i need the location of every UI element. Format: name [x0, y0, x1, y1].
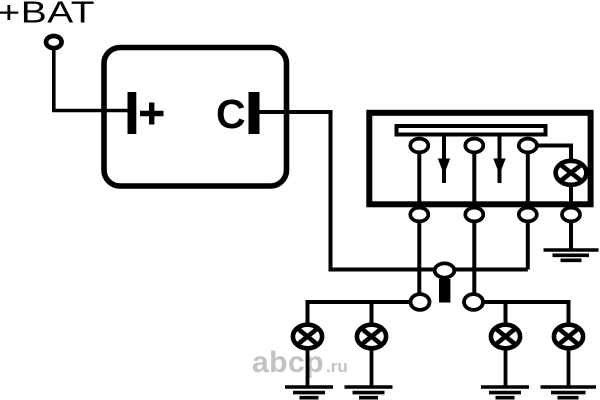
- switch box: [369, 113, 590, 205]
- wire lamp 4 to ground: [567, 348, 571, 386]
- wire to right lamps: [483, 302, 569, 326]
- ground lamp 4: [541, 387, 597, 398]
- junction bar: [439, 279, 450, 303]
- svg-text:C: C: [216, 91, 246, 137]
- watermark abcp.ru: [252, 346, 348, 379]
- wire pilot lamp to terminal 4: [569, 185, 573, 215]
- terminal circle 4: [562, 208, 580, 222]
- wire C plate to junction: [260, 112, 435, 270]
- lamp 2: [357, 325, 386, 349]
- wire branch lamp 2: [370, 302, 374, 326]
- junction node: [435, 263, 455, 277]
- svg-text:abcp: abcp: [252, 346, 324, 379]
- wire lamp 2 to ground: [370, 348, 374, 386]
- arrow 2: [493, 137, 505, 184]
- plus sign: [140, 103, 164, 125]
- wire contact 3 to pilot lamp: [538, 146, 572, 162]
- ground lamp 2: [345, 387, 393, 398]
- capacitor plate C: [249, 92, 260, 134]
- terminal circle 2: [465, 208, 483, 222]
- arrow 1: [438, 137, 450, 184]
- wire contact 2 vertical: [472, 146, 476, 216]
- ground lamp 3: [481, 387, 529, 398]
- switch contact bar: [397, 126, 546, 135]
- lamp 3: [491, 325, 520, 349]
- ground pilot: [544, 250, 599, 260]
- wire contact 3 vertical: [526, 146, 530, 216]
- lamp 1: [293, 325, 322, 349]
- wire terminal 2 down: [472, 222, 476, 294]
- wire contact 1 vertical: [417, 146, 421, 216]
- wire terminal 1 down: [417, 222, 421, 294]
- contact circle 3: [519, 139, 537, 153]
- wire lamp 1 to ground: [306, 348, 310, 386]
- battery plate +: [128, 92, 137, 134]
- node left: [411, 294, 430, 310]
- wire terminal 3 down: [526, 222, 530, 270]
- wire branch lamp 3: [504, 302, 508, 326]
- node right: [464, 294, 483, 310]
- contact circle 2: [465, 139, 483, 153]
- wire lamp 3 to ground: [504, 348, 508, 386]
- wire junction to switch drop: [454, 268, 528, 272]
- terminal circle 1: [410, 208, 428, 222]
- relay box (flasher): [104, 48, 287, 187]
- pilot lamp: [556, 161, 587, 185]
- wire to left lamps: [308, 302, 411, 326]
- lamp 4: [554, 325, 583, 349]
- svg-text:+BAT: +BAT: [0, 0, 95, 29]
- contact circle 1: [410, 139, 428, 153]
- svg-text:.ru: .ru: [326, 357, 348, 376]
- wire terminal 4 to ground: [569, 222, 573, 249]
- ground lamp 1: [285, 387, 333, 398]
- terminal circle 3: [519, 208, 537, 222]
- wire +BAT terminal to relay: [54, 49, 128, 111]
- terminal +BAT: [46, 36, 62, 48]
